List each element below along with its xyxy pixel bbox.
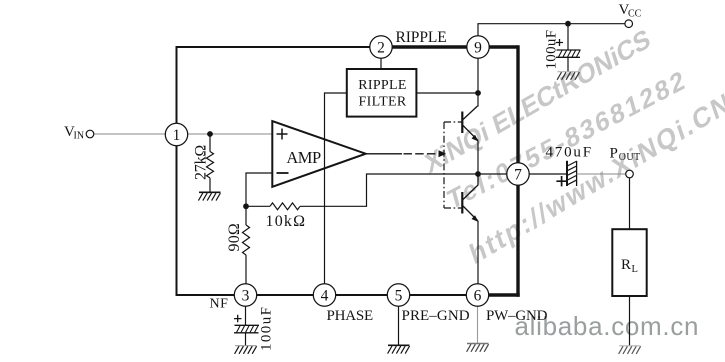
transistor Q1 emitter diagonal with arrow bbox=[463, 126, 479, 142]
transistor Q2 collector from node bbox=[463, 174, 478, 200]
ground under 100uF bbox=[557, 72, 579, 80]
dashed vertical base rail bbox=[443, 122, 445, 208]
wire Q1 emitter to node bbox=[477, 141, 479, 175]
resistor R 27k zigzag bbox=[207, 152, 214, 178]
VCC label bbox=[619, 2, 642, 20]
wire pin9 up to VCC rail bbox=[478, 24, 625, 36]
svg-text:90Ω: 90Ω bbox=[226, 223, 243, 252]
thick bus bottom border corner to pin6 bbox=[478, 293, 520, 296]
svg-text:27kΩ: 27kΩ bbox=[192, 145, 209, 180]
junction node VCC/100uF bbox=[565, 21, 571, 27]
wire Q2 emitter to pin6 bbox=[477, 221, 479, 285]
svg-text:FILTER: FILTER bbox=[359, 95, 407, 110]
pin 9 circle bbox=[467, 36, 489, 58]
ripple filter box bbox=[347, 69, 417, 117]
watermark line 1 XiNQi ELECtRONiCS bbox=[422, 22, 654, 179]
watermark line 2 Tel:0755-83681282 bbox=[445, 63, 690, 216]
svg-text:100uF: 100uF bbox=[544, 30, 560, 70]
terminal VIN bbox=[86, 130, 94, 138]
wire node to 27k resistor bbox=[209, 134, 211, 152]
wire pin3 to 100uF NF cap bbox=[245, 306, 247, 325]
wire pin5 to ground bbox=[398, 306, 400, 345]
amp plus sign bbox=[277, 129, 288, 140]
capacitor NF 100uF plus sign bbox=[234, 315, 242, 323]
wire POUT down to RL bbox=[629, 178, 631, 229]
svg-text:5: 5 bbox=[395, 288, 403, 305]
svg-text:3: 3 bbox=[242, 288, 250, 305]
wire pin1 to amp plus input bbox=[187, 133, 272, 135]
wire VCC node to 100uF cap bbox=[567, 24, 569, 50]
resistor 10k zigzag bbox=[270, 203, 300, 210]
wire NF cap to ground bbox=[245, 333, 247, 346]
wire pin2 stub to ripple filter bbox=[380, 58, 382, 69]
thick bus right border bbox=[516, 45, 519, 296]
svg-text:PHASE: PHASE bbox=[327, 308, 374, 324]
transistor Q1 base bar bbox=[461, 112, 463, 134]
svg-text:PRE–GND: PRE–GND bbox=[402, 308, 470, 324]
pin 2 circle bbox=[370, 36, 392, 58]
pin 4 circle bbox=[313, 284, 335, 306]
label 10k ohm bbox=[266, 213, 307, 230]
wire pin6 to ground (light) bbox=[477, 306, 479, 344]
op-amp AMP triangle bbox=[272, 121, 365, 187]
svg-text:10kΩ: 10kΩ bbox=[266, 213, 307, 230]
svg-text:CC: CC bbox=[628, 8, 642, 19]
transistor Q2 emitter diagonal with arrow bbox=[463, 206, 479, 222]
svg-text:7: 7 bbox=[514, 167, 522, 184]
ground under pin5 bbox=[388, 345, 410, 353]
wire node to 10k resistor bbox=[246, 205, 270, 207]
ground under NF cap bbox=[235, 346, 257, 354]
svg-text:470uF: 470uF bbox=[546, 145, 593, 161]
wire 100uF to ground bbox=[567, 58, 569, 72]
wire ripple filter to node below pin9 bbox=[416, 92, 478, 94]
IC boundary rectangle bbox=[177, 47, 519, 295]
wire 470uF to POUT bbox=[577, 173, 626, 175]
label 90 ohm bbox=[226, 223, 243, 252]
watermark line 3 http://www.XiNQi.CN bbox=[466, 85, 725, 270]
svg-text:6: 6 bbox=[474, 288, 482, 305]
AMP label bbox=[286, 148, 321, 167]
watermark alibaba.com.cn bbox=[515, 311, 699, 341]
label 27k ohm bbox=[192, 145, 209, 180]
resistor 90ohm zigzag bbox=[243, 225, 250, 255]
transistor Q2 base bar bbox=[461, 192, 463, 214]
junction node pin1/27k bbox=[207, 131, 213, 137]
label PRE-GND bbox=[402, 308, 470, 324]
POUT label bbox=[610, 146, 641, 164]
svg-text:P: P bbox=[610, 146, 618, 162]
amp minus sign bbox=[277, 172, 289, 174]
pin 3 circle bbox=[234, 284, 256, 306]
VIN label bbox=[64, 124, 84, 142]
capacitor 470uF hatched plate vertical bbox=[567, 161, 577, 186]
label PW-GND bbox=[486, 308, 548, 324]
dashed arrowhead bbox=[439, 150, 447, 157]
svg-text:OUT: OUT bbox=[619, 152, 641, 163]
terminal VCC bbox=[625, 20, 633, 28]
label 100uF NF bbox=[259, 306, 275, 351]
svg-text:9: 9 bbox=[474, 40, 482, 57]
pin 5 circle bbox=[387, 284, 409, 306]
ground under pin6 bbox=[467, 344, 489, 352]
svg-text:IN: IN bbox=[74, 130, 85, 141]
capacitor 100uF plus sign bbox=[556, 39, 563, 46]
phase wire from ripple filter through amp to pin4 bbox=[325, 93, 347, 285]
label NF bbox=[210, 297, 229, 312]
svg-text:AMP: AMP bbox=[286, 148, 321, 167]
pin 1 circle bbox=[165, 123, 187, 145]
RL label bbox=[621, 257, 638, 275]
svg-text:L: L bbox=[632, 264, 638, 275]
junction node emitter/pin7 bbox=[475, 171, 481, 177]
svg-text:4: 4 bbox=[321, 288, 329, 305]
wire 27k to ground bbox=[209, 178, 211, 192]
svg-text:R: R bbox=[621, 257, 631, 273]
svg-text:RIPPLE: RIPPLE bbox=[396, 29, 447, 46]
wire pin7 to 470uF cap bbox=[529, 173, 567, 175]
svg-text:1: 1 bbox=[173, 127, 181, 144]
dashed stub to Q1 base bbox=[444, 121, 462, 123]
ground under RL bbox=[619, 346, 641, 354]
wire amp minus input bbox=[246, 173, 272, 225]
svg-text:NF: NF bbox=[210, 297, 229, 312]
label 100uF top bbox=[544, 30, 560, 70]
pin 6 circle bbox=[466, 284, 488, 306]
transistor Q1 collector diagonal bbox=[463, 106, 478, 120]
label 470uF bbox=[546, 145, 593, 161]
junction node minus/90/10k bbox=[243, 203, 249, 209]
wire pin9 down to Q1 collector bbox=[477, 58, 479, 107]
label PHASE bbox=[327, 308, 374, 324]
feedback wire 10k to pin7 node bbox=[300, 174, 507, 206]
svg-text:PW–GND: PW–GND bbox=[486, 308, 548, 324]
svg-text:100uF: 100uF bbox=[259, 306, 275, 351]
capacitor 100uF hatched plate bbox=[556, 50, 581, 57]
resistor RL box bbox=[612, 229, 646, 296]
pin 7 circle bbox=[507, 163, 529, 185]
dashed stub to Q2 base bbox=[444, 207, 462, 209]
junction node ripple filter/Q1 bbox=[475, 90, 481, 96]
terminal POUT bbox=[626, 170, 634, 178]
ripple filter label bbox=[358, 78, 407, 110]
wire 90ohm to pin3 bbox=[245, 255, 247, 285]
svg-text:2: 2 bbox=[377, 40, 385, 57]
ground under 27k bbox=[198, 192, 220, 200]
dashed wire amp output to bases bbox=[366, 153, 438, 155]
thick bus wire pin2 to pin9 to corner bbox=[381, 45, 518, 48]
capacitor 470uF plus sign bbox=[556, 176, 566, 186]
svg-text:RIPPLE: RIPPLE bbox=[358, 78, 406, 93]
wire RL to ground bbox=[629, 296, 631, 346]
wire VIN to pin1 bbox=[94, 133, 167, 135]
capacitor NF 100uF hatched plate bbox=[234, 325, 259, 333]
label RIPPLE pin2 bbox=[396, 29, 447, 46]
